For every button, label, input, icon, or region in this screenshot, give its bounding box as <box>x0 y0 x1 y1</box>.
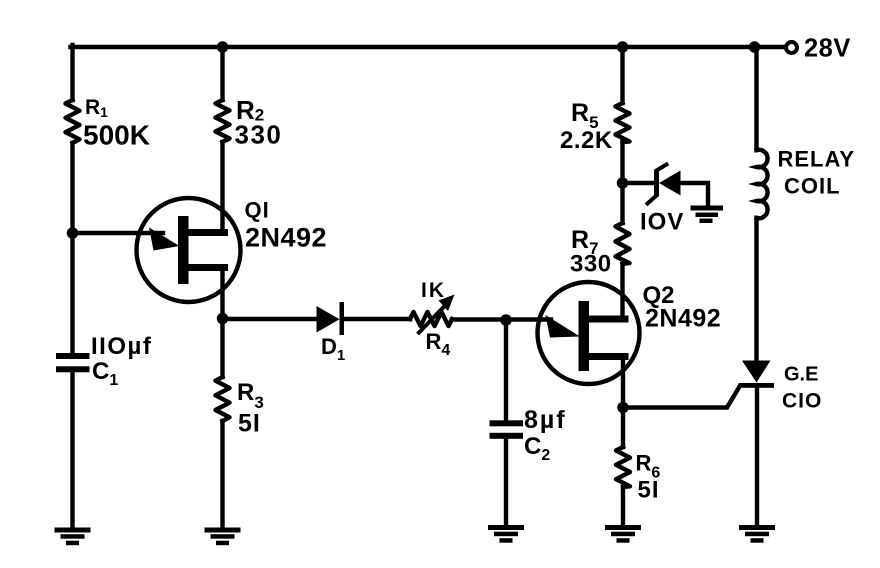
resistor R5 <box>616 103 630 142</box>
diode D1 <box>317 302 345 335</box>
wire R6 to ground <box>621 487 625 525</box>
transistor Q1 (UJT 2N492) <box>137 198 241 302</box>
node D junction <box>617 177 629 189</box>
relay coil inductor <box>757 150 768 219</box>
capacitor C1 <box>56 353 90 372</box>
wire R1 to C1 <box>70 143 74 353</box>
ground under SCR <box>739 525 775 543</box>
svg-text:CIO: CIO <box>782 390 822 413</box>
wire C2 to ground <box>504 439 508 525</box>
node E junction <box>617 402 629 414</box>
node B junction Q1 base1/R3/D1 <box>217 313 229 325</box>
svg-text:5I: 5I <box>638 477 660 504</box>
wire R2 to Q1 base2 lead <box>220 142 224 233</box>
resistor R1 <box>66 100 80 143</box>
wire Q1 emitter from node A <box>73 231 164 235</box>
svg-text:G.E: G.E <box>784 364 818 386</box>
resistor R3 <box>216 377 230 421</box>
wire node B to R3 <box>220 319 224 377</box>
transistor Q2 (UJT 2N492) <box>538 282 640 384</box>
wire R4 to Q2 emitter <box>452 317 551 321</box>
wire node D to R7 <box>620 183 624 223</box>
wire node C down to C2 <box>504 320 508 420</box>
svg-text:5I: 5I <box>238 410 261 438</box>
wire relay branch top <box>754 47 758 150</box>
svg-text:500K: 500K <box>83 120 150 151</box>
ground under R6 <box>605 525 641 543</box>
svg-text:COIL: COIL <box>784 174 841 199</box>
svg-text:2N492: 2N492 <box>645 305 721 333</box>
node top rail relay junction <box>749 41 761 53</box>
node top rail R5 junction <box>617 41 629 53</box>
wire R5 branch top <box>620 47 624 103</box>
capacitor C2 <box>490 420 524 439</box>
resistor R2 <box>216 100 230 142</box>
svg-text:RELAY: RELAY <box>778 147 856 172</box>
svg-text:QI: QI <box>245 198 270 223</box>
wire node B to D1 <box>223 317 317 321</box>
svg-text:330: 330 <box>235 120 283 150</box>
node A junction R1/emitter <box>67 227 79 239</box>
wire left branch vertical <box>70 45 74 100</box>
svg-text:IK: IK <box>421 279 446 302</box>
wire R7 to Q2 base2 <box>620 264 624 319</box>
svg-text:330: 330 <box>570 251 612 278</box>
ground of zener <box>691 206 724 224</box>
wire Q2 base1 down to node E <box>621 357 625 408</box>
wire top supply rail <box>71 45 786 49</box>
SCR G.E C10 <box>739 361 775 388</box>
wire coil to SCR <box>754 218 758 360</box>
node top rail R2 junction <box>217 41 229 53</box>
zener diode 10V <box>623 181 655 185</box>
svg-text:28V: 28V <box>804 35 851 63</box>
wire node E to R6 <box>621 408 625 448</box>
wire D1 to R4 <box>344 317 410 321</box>
svg-text:IIOµf: IIOµf <box>91 333 152 360</box>
ground under C1 <box>55 528 91 546</box>
wire R5 to node D <box>620 142 624 183</box>
node C junction <box>500 314 512 326</box>
svg-text:2N492: 2N492 <box>245 223 327 253</box>
wire SCR gate to node E <box>623 387 740 408</box>
wire C1 to ground <box>70 372 74 528</box>
ground under C2 <box>488 525 524 543</box>
svg-text:8µf: 8µf <box>524 406 567 434</box>
resistor R7 <box>616 223 630 264</box>
wire Q1 base1 down to node B <box>220 269 224 319</box>
wire R2 branch top <box>220 47 224 100</box>
svg-text:2.2K: 2.2K <box>560 127 613 154</box>
wire R3 to ground <box>220 421 224 528</box>
wire SCR cathode to ground <box>755 388 759 526</box>
resistor R4 (variable, 1K) <box>410 312 452 326</box>
resistor R6 <box>616 447 630 487</box>
node 28V terminal <box>786 42 797 53</box>
svg-text:IOV: IOV <box>640 209 684 236</box>
wire zener to ground <box>680 183 708 206</box>
ground under R3 <box>205 528 241 546</box>
